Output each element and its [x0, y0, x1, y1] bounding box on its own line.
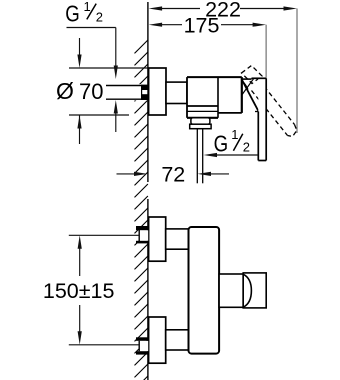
- svg-text:1: 1: [84, 0, 91, 14]
- svg-text:Ø: Ø: [56, 78, 74, 104]
- svg-text:2: 2: [96, 9, 103, 24]
- svg-text:150±15: 150±15: [43, 279, 115, 303]
- svg-text:G: G: [214, 130, 229, 156]
- svg-text:72: 72: [161, 163, 185, 187]
- svg-text:G: G: [65, 0, 80, 26]
- svg-text:1: 1: [231, 127, 238, 142]
- svg-text:70: 70: [79, 79, 103, 104]
- svg-text:175: 175: [184, 13, 220, 37]
- svg-text:2: 2: [243, 139, 250, 154]
